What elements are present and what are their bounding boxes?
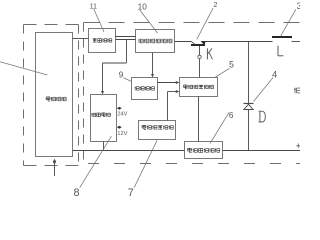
- switch K (pass transistor): [191, 41, 249, 46]
- svg-text:6: 6: [229, 111, 234, 120]
- wire current regulation module to current sampling module: [198, 97, 200, 142]
- label 11 with leader: [90, 2, 104, 33]
- freewheel diode D (4): [244, 104, 254, 110]
- switch K gate line with circle: [198, 46, 201, 78]
- dashed charger enclosure (bottom edge): [88, 163, 300, 165]
- wire switch K to inductor L: [249, 41, 273, 43]
- output label 输 (clipped at edge): [294, 88, 300, 94]
- dashed box 1 battery-pack enclosure (left edge): [23, 25, 25, 166]
- wire battery+ to start module: [73, 38, 89, 40]
- letter L label: [278, 46, 283, 56]
- auxiliary power module box 辅助电源 (8): [91, 95, 117, 142]
- dashed charger enclosure (left edge): [83, 23, 85, 164]
- current setting module box 电流设定模块 (7): [139, 121, 176, 140]
- wire overcurrent module to protection module (down arrow): [151, 53, 154, 78]
- svg-text:11: 11: [90, 2, 97, 11]
- wire current setting module to current regulation module (arrow): [168, 90, 180, 121]
- wire battery- to current sampling module: [73, 150, 185, 152]
- wire diode to bottom rail: [248, 110, 250, 151]
- start module box 启动模块 (11): [89, 29, 116, 53]
- label 8 with leader: [73, 136, 111, 199]
- wire start module to overcurrent module (upper): [116, 36, 136, 38]
- svg-text:3: 3: [297, 0, 300, 11]
- current regulation module box 电流调节模块 (5): [180, 78, 218, 97]
- wire junction to auxiliary power (with down arrow): [101, 40, 127, 95]
- 12V output stub with diamond arrow: [117, 126, 128, 137]
- svg-text:8: 8: [73, 187, 79, 199]
- dashed charger enclosure (top edge): [84, 22, 301, 24]
- svg-text:5: 5: [229, 60, 234, 70]
- output label fragment bottom: [297, 143, 301, 148]
- 24V output stub with diamond arrow: [117, 107, 128, 118]
- protection module box 保护模块 (9): [132, 78, 158, 100]
- battery module box 电池模块: [36, 33, 73, 157]
- label 2 with leader: [197, 0, 218, 39]
- wire start module to overcurrent module (lower): [116, 39, 136, 41]
- label 9 with leader: [119, 71, 132, 82]
- letter D label: [259, 111, 266, 122]
- letter K label: [207, 48, 212, 59]
- overcurrent detection module box 过流检测模块 (10): [136, 30, 175, 53]
- wire current sampling module to output-: [223, 150, 301, 152]
- svg-text:24V: 24V: [117, 111, 127, 117]
- dashed box 1 battery-pack enclosure (bottom edge): [24, 165, 79, 167]
- svg-text:7: 7: [128, 187, 134, 199]
- label 1 leader (digit off-image): [0, 62, 47, 75]
- wire protection module to current regulation module (arrow): [158, 81, 180, 84]
- wire auxiliary power to bottom rail: [103, 142, 105, 151]
- dashed box 1 battery-pack enclosure (top edge): [24, 24, 79, 26]
- label 7 with leader: [128, 140, 157, 199]
- svg-text:2: 2: [213, 0, 217, 9]
- dashed box 1 battery-pack enclosure (right edge): [78, 25, 80, 166]
- wire inductor L to output+: [292, 41, 301, 43]
- svg-text:9: 9: [119, 71, 124, 80]
- wire switch node down to diode: [248, 42, 250, 104]
- label 10 with leader: [138, 2, 158, 33]
- wire overcurrent module to switch K: [175, 41, 192, 43]
- label 5 with leader: [216, 60, 235, 77]
- label 4 with leader: [254, 68, 278, 101]
- current sampling module box 电流取样模块 (6): [185, 142, 223, 159]
- label 3 with leader: [281, 0, 302, 36]
- battery charge-direction arrow: [53, 159, 56, 176]
- inductor L (solid bar) (3): [272, 36, 292, 38]
- svg-text:12V: 12V: [117, 131, 127, 137]
- label 6 with leader: [210, 111, 234, 144]
- svg-text:10: 10: [138, 2, 148, 12]
